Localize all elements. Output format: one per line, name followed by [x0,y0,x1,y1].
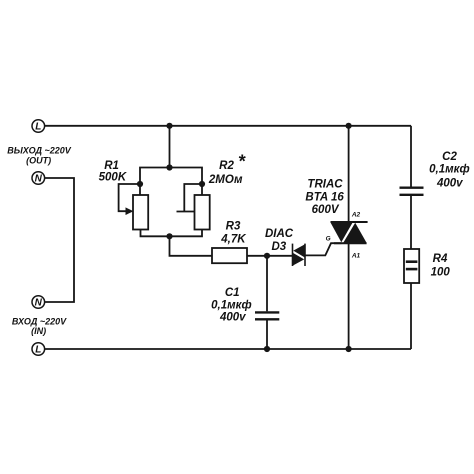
wire: right branch top [410,126,412,187]
svg-text:C2: C2 [442,151,457,163]
node: triac / bottom rail [346,346,352,352]
svg-text:N: N [35,174,43,185]
resistor R2 body [195,195,210,230]
svg-text:4,7K: 4,7K [220,233,246,245]
svg-text:C1: C1 [225,287,240,299]
node: R1 wiper tap [137,181,143,187]
wire: triac branch upper [348,126,350,222]
wire: C2 to R4 [410,196,412,249]
capacitor C2 plate top [400,186,424,188]
diac D3 triangle upper (points left) [293,244,305,257]
svg-text:ВХОД ~220V: ВХОД ~220V [12,316,67,326]
node: bridge top [166,164,172,170]
resistor R4 body [404,249,419,283]
diac D3 triangle lower (points right) [293,253,305,266]
diac D3 left bar [292,244,294,266]
svg-text:ВЫХОД ~220V: ВЫХОД ~220V [7,145,72,155]
triac Q1 top bar (A2) [331,221,368,223]
wire: R3 to node C1/diac [247,255,293,257]
svg-text:100: 100 [431,266,451,278]
svg-text:TRIAC: TRIAC [307,179,343,191]
triac Q1 bottom bar (A1/gate) [334,242,367,244]
wire: N1 to N2 link [45,178,74,302]
terminal L2 (input, bottom-left) [32,343,45,356]
svg-text:(OUT): (OUT) [26,156,51,166]
node: top rail / bridge junction [166,123,172,129]
terminal N2 (input neutral) [32,296,45,309]
wire: bridge bottom to R3 [170,236,213,256]
svg-text:A2: A2 [351,211,361,218]
wire: triac branch lower [348,243,350,349]
svg-text:BTA 16: BTA 16 [305,191,344,203]
terminal N1 (output neutral) [32,172,45,185]
R4 inner bar 1 [406,260,418,263]
svg-text:L: L [35,345,41,356]
resistor R3 body [212,248,247,263]
terminal L1 (output, top-left) [32,120,45,133]
R4 inner bar 2 [406,268,418,271]
svg-text:R2: R2 [219,160,234,172]
svg-text:2МОм: 2МОм [208,174,243,186]
wire: bridge bottom [141,230,203,237]
wire: bridge feed from top rail [169,126,171,168]
svg-text:600V: 600V [312,204,340,216]
svg-text:400v: 400v [219,312,246,324]
wire: R1 wiper link [119,184,140,211]
node: C1 / bottom rail [264,346,270,352]
capacitor C1 plate top [255,311,279,313]
triac Q1 triangle right (points up) [343,223,366,243]
svg-text:500K: 500K [99,171,127,183]
capacitor C2 plate bottom [400,194,424,196]
svg-text:L: L [35,122,41,133]
wire: bridge top horizontal [140,168,202,196]
svg-text:R3: R3 [226,220,241,232]
diac D3 right bar [304,244,306,266]
node: R2 wiper tap [199,181,205,187]
svg-text:R1: R1 [104,160,119,172]
capacitor C1 plate bottom [255,318,279,320]
R1 wiper arrow [126,207,134,215]
wire: diac to gate [305,243,342,255]
svg-text:(IN): (IN) [31,326,46,336]
wire: bottom rail L [45,348,411,350]
svg-text:R4: R4 [433,253,448,265]
svg-text:400v: 400v [436,177,463,189]
wire: C1 branch upper [266,256,268,311]
node: top rail / triac junction [346,123,352,129]
wire: R2 wiper link [184,184,202,212]
node: R3 / C1 / diac [264,253,270,259]
node: bridge bottom [166,233,172,239]
svg-text:G: G [326,236,331,243]
resistor R1 body [133,195,148,230]
svg-text:*: * [238,151,246,171]
svg-text:D3: D3 [271,241,286,253]
svg-text:N: N [35,298,43,309]
R2 wiper line [177,211,195,213]
wire: C1 branch lower [266,320,268,349]
svg-text:A1: A1 [351,253,361,260]
triac Q1 triangle left (points down) [331,223,353,243]
svg-text:0,1мкф: 0,1мкф [429,164,470,176]
svg-text:DIAC: DIAC [265,228,294,240]
svg-text:0,1мкф: 0,1мкф [211,300,252,312]
wire: R4 to bottom rail [410,283,412,349]
wire: top rail L [45,125,411,127]
